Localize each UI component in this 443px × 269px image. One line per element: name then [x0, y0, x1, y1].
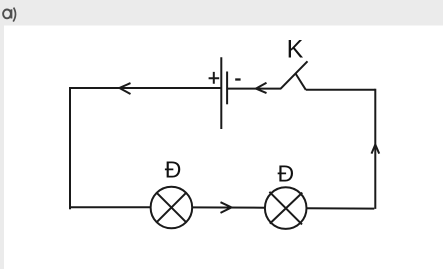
- battery positive plate: [220, 57, 222, 129]
- svg-text:Đ: Đ: [165, 157, 182, 183]
- arrow current direction battery wire: [256, 83, 267, 93]
- wire between lamps: [192, 206, 265, 208]
- switch K right contact: [296, 74, 306, 90]
- lamp D1: [151, 187, 193, 229]
- battery plus label: [209, 72, 220, 84]
- lamp D2: [265, 187, 307, 229]
- arrow current direction between lamps: [221, 202, 232, 213]
- wire left side: [69, 87, 71, 209]
- label a): [3, 8, 15, 22]
- switch K blade: [281, 61, 308, 89]
- svg-text:K: K: [287, 36, 304, 64]
- wire right side: [374, 89, 376, 209]
- wire lamp1 to bottom-left corner: [69, 206, 151, 208]
- wire switch to top-right corner: [306, 89, 376, 91]
- arrow current direction top wire: [119, 83, 130, 94]
- wire bottom-right segment: [307, 207, 375, 209]
- wire battery to switch: [227, 88, 281, 90]
- wire top-left segment: [70, 87, 221, 89]
- svg-text:Đ: Đ: [278, 161, 295, 187]
- battery minus label: [235, 78, 240, 80]
- battery negative plate: [226, 72, 228, 105]
- arrow current direction right wire: [372, 145, 380, 154]
